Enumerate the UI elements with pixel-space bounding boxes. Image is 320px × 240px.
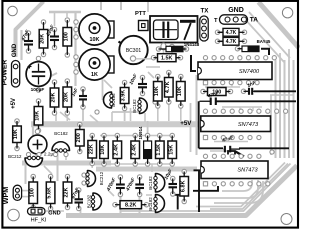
capacitor C11 470nF xyxy=(105,175,125,197)
trace right bus 5 xyxy=(293,60,295,158)
trace right bus 1 xyxy=(275,60,277,158)
trace vert x80 bottom xyxy=(80,209,82,214)
trace corner loop 3 xyxy=(214,181,263,203)
trace vert x112 mid xyxy=(111,112,113,122)
trace vert stub U2 b xyxy=(252,107,254,111)
svg-text:100: 100 xyxy=(63,32,69,41)
resistor R24 22K xyxy=(63,174,72,209)
mounting hole bottom-left xyxy=(8,209,20,221)
trace vert x36 up xyxy=(35,150,37,160)
connector WPM pill xyxy=(13,185,21,200)
trace vert x104 bottom2 xyxy=(103,164,105,168)
trace vert 470nF b xyxy=(139,194,141,215)
svg-text:BC182: BC182 xyxy=(54,131,68,136)
IC U2 top pads xyxy=(203,109,287,113)
trace vert under U1 a xyxy=(231,83,233,87)
svg-text:SN7400: SN7400 xyxy=(239,69,260,75)
resistor R26 8.2K xyxy=(113,201,149,209)
resistor R7 20K xyxy=(63,79,72,115)
resistor R19 1.5K xyxy=(156,133,165,166)
connector GND pill left xyxy=(12,61,20,88)
trace horiz y67 xyxy=(146,66,160,68)
wire 47nF-2 to right xyxy=(239,147,289,149)
trace vertical pot feed xyxy=(74,12,76,86)
svg-text:BC212: BC212 xyxy=(99,171,104,185)
svg-text:SN7473: SN7473 xyxy=(238,122,259,128)
resistor R22 100 xyxy=(29,174,38,209)
trace top-right inner 1 xyxy=(249,12,290,58)
wire 47nF-2 run xyxy=(199,147,223,149)
trace stub 22nF top xyxy=(54,12,56,26)
resistor R23 5.6K xyxy=(46,174,55,210)
trace top-left corner bend xyxy=(16,2,44,58)
capacitor C3 100uF electrolytic xyxy=(26,56,51,93)
trace right bus 3 xyxy=(284,60,286,158)
resistor R8 10K xyxy=(34,99,43,133)
trace vert x130 mid xyxy=(130,108,132,121)
trace right bus stub top a xyxy=(279,53,281,60)
resistor R25 6.8K xyxy=(180,169,189,203)
trace horiz below U2 xyxy=(214,141,248,143)
IC U2 bottom pads xyxy=(203,135,261,139)
wire diode BAY45 to bus xyxy=(261,49,269,55)
wire jog above SN7473-2 xyxy=(228,151,235,155)
svg-text:10K: 10K xyxy=(13,129,19,139)
trace top-right chamfer band xyxy=(259,2,300,48)
mounting hole bottom-right xyxy=(281,214,292,225)
svg-text:2.4K: 2.4K xyxy=(113,144,119,156)
transistor Q6 BC212 xyxy=(82,171,104,187)
resistor R16 10K xyxy=(100,133,109,166)
svg-text:200: 200 xyxy=(76,133,82,142)
capacitor C4 1nF xyxy=(70,86,87,109)
svg-text:4.7K: 4.7K xyxy=(226,30,237,36)
svg-text:6.8K: 6.8K xyxy=(180,180,186,192)
svg-text:22K: 22K xyxy=(64,187,70,197)
diode D3 1N914 xyxy=(144,133,152,166)
IC U1 pin1 square pad xyxy=(203,81,207,85)
trace vert r15 bottom xyxy=(180,106,182,121)
trace corner loop 1 xyxy=(222,180,252,191)
svg-text:BC182: BC182 xyxy=(132,99,137,113)
trace stub top edge b xyxy=(120,2,122,10)
capacitor C6 10nF xyxy=(128,72,147,95)
svg-text:GND: GND xyxy=(228,7,244,14)
trace vert r13 bottom xyxy=(157,106,159,121)
capacitor C13 10uF xyxy=(163,167,177,196)
resistor R6 20K xyxy=(50,80,59,115)
IC U3 SN7473 second xyxy=(201,161,268,179)
trace vert right-mid b xyxy=(190,103,192,152)
trace top-right inner 2 xyxy=(243,17,284,62)
trace horiz x150 y195 xyxy=(146,194,152,196)
svg-text:15K: 15K xyxy=(168,145,174,155)
trace mid horizontal bus xyxy=(31,121,199,127)
trace vert x67 y113 xyxy=(66,113,68,121)
connector T/TA pill xyxy=(220,15,248,24)
svg-text:20K: 20K xyxy=(63,92,69,102)
svg-text:1N4148: 1N4148 xyxy=(184,42,200,47)
capacitor C9 47nF xyxy=(221,135,240,152)
trace horiz under U1 xyxy=(205,86,240,88)
trace vert right bus 6 xyxy=(270,95,272,155)
resistor R11 22K xyxy=(88,133,97,165)
trace horiz below mid row xyxy=(92,163,172,165)
transistor Q2 BC212 xyxy=(25,152,43,166)
svg-text:4.7K: 4.7K xyxy=(165,81,171,93)
trimmer box K1 xyxy=(150,16,198,43)
capacitor C1 47nF xyxy=(20,28,33,53)
wire tee mid-bottom xyxy=(174,195,182,210)
svg-text:BAY45: BAY45 xyxy=(257,39,271,44)
connector TX pill xyxy=(200,16,208,41)
trace vert x57 y120 xyxy=(55,107,57,121)
svg-text:HF_KI: HF_KI xyxy=(31,218,47,224)
IC U2 pin1 square pad xyxy=(203,135,207,139)
trace stub top edge a xyxy=(100,2,102,10)
trace stub crystal pad down xyxy=(163,50,165,56)
IC U2 SN7473 xyxy=(201,116,271,132)
wire bottom of SN7473-2 xyxy=(193,186,218,191)
trace diag 100uF to pot xyxy=(35,73,57,84)
IC U3 bottom pads xyxy=(203,182,270,186)
potentiometer P2 1K 1K xyxy=(74,49,114,80)
trace bottom-right inner 1 xyxy=(120,164,291,212)
svg-text:1N914: 1N914 xyxy=(138,126,143,139)
svg-text:100µF: 100µF xyxy=(31,87,45,93)
svg-text:TA: TA xyxy=(250,17,258,24)
trace horiz above U3 xyxy=(210,150,235,152)
svg-text:100: 100 xyxy=(29,188,35,197)
svg-text:+5V: +5V xyxy=(180,120,192,127)
IC U1 bottom pads xyxy=(203,81,259,85)
wire 1nF to right bus xyxy=(254,90,296,92)
resistor R9 10K xyxy=(13,119,22,151)
resistor R14 4.7K xyxy=(165,70,174,104)
svg-text:20K: 20K xyxy=(51,92,57,102)
wire diagonal to pin xyxy=(236,152,245,157)
trace horiz hf_ki xyxy=(46,210,64,212)
diode D1 1N4148 xyxy=(156,46,188,51)
resistor R12 3.9K xyxy=(120,80,129,110)
wire net to SN7400 pin area xyxy=(191,55,196,71)
transistor Q3 BC182 xyxy=(52,142,70,157)
trace lower band b xyxy=(96,167,197,172)
svg-text:10K: 10K xyxy=(90,37,100,43)
svg-text:1.5K: 1.5K xyxy=(161,56,172,62)
transistor Q10 BC182 xyxy=(148,195,164,213)
trace diag mid a xyxy=(104,80,112,88)
resistor R2 100 xyxy=(63,18,72,57)
mounting hole top-left xyxy=(8,6,18,16)
trace vert bc301 right xyxy=(151,30,153,42)
svg-text:1.5K: 1.5K xyxy=(156,144,162,156)
svg-text:10K: 10K xyxy=(154,86,160,96)
trace diag mid c xyxy=(60,112,70,120)
trace right bus 2 xyxy=(279,60,281,158)
trace vert q5 bottom xyxy=(144,113,146,122)
svg-text:BC182: BC182 xyxy=(111,93,116,107)
resistor R10 200 xyxy=(76,122,85,153)
trace vert x172 bottom xyxy=(171,164,173,171)
trace stub 100 top xyxy=(66,12,68,17)
trace diag mid b xyxy=(148,72,154,78)
trace bus drop left xyxy=(32,124,34,137)
svg-text:GND: GND xyxy=(12,43,18,57)
trace bottom-right chamfer band xyxy=(66,166,297,216)
svg-text:5.6K: 5.6K xyxy=(47,187,53,199)
resistor R13 10K xyxy=(154,74,163,108)
wire 47nF to right edge xyxy=(217,100,297,102)
trace right bus 4 xyxy=(288,60,290,158)
trace bottom-right inner 2 xyxy=(196,163,285,207)
resistor R17 2.4K xyxy=(113,133,122,166)
svg-text:3.9K: 3.9K xyxy=(121,90,127,102)
trace vert x57 xyxy=(57,150,59,181)
capacitor C5 2.2uF electrolytic xyxy=(28,129,56,157)
svg-text:PTT: PTT xyxy=(135,11,146,17)
trace vert 3.9K bottom xyxy=(124,108,126,121)
trace diag bottom b xyxy=(108,190,114,196)
svg-text:BC182: BC182 xyxy=(148,176,153,190)
svg-text:BC301: BC301 xyxy=(126,48,142,54)
trace vert 1N914 top xyxy=(147,121,149,134)
svg-text:SN7473: SN7473 xyxy=(237,168,258,174)
trace vertical left of caps xyxy=(20,30,22,60)
trace horiz right edge mid xyxy=(270,94,294,96)
diode D2 BAY45 xyxy=(235,46,259,52)
transistor Q1 BC301 xyxy=(119,36,153,64)
transistor Q4 BC182 xyxy=(95,92,116,114)
wire tee right-bottom xyxy=(194,170,201,213)
trace vert right-mid a xyxy=(196,75,198,155)
trace vert x25 xyxy=(25,161,27,184)
resistor R4 4.7K xyxy=(215,28,246,36)
svg-text:20K: 20K xyxy=(40,34,46,44)
svg-text:2.4K: 2.4K xyxy=(131,144,137,156)
trace wpm dash a xyxy=(22,190,29,192)
trace vert stub U2 a xyxy=(239,107,241,111)
svg-text:4.7K: 4.7K xyxy=(226,39,237,45)
trace vert x83 mid xyxy=(82,108,84,121)
trace vert x152 bottom xyxy=(151,164,153,172)
trace vert x92 bottom2 xyxy=(91,164,93,168)
IC U3 pin1 square pad xyxy=(203,182,207,186)
svg-text:1K: 1K xyxy=(91,72,98,78)
svg-text:22K: 22K xyxy=(88,144,94,154)
connector HF_KI pill xyxy=(28,208,46,215)
trace diag mid d xyxy=(90,115,98,122)
resistor R18 2.4K xyxy=(131,133,140,166)
trace bottom-right inner 3 xyxy=(210,164,288,210)
svg-text:BC212: BC212 xyxy=(8,154,22,159)
svg-text:8.2K: 8.2K xyxy=(125,203,136,209)
resistor R21 100 xyxy=(201,88,233,96)
trace vert x168 mid xyxy=(168,102,170,121)
trace horiz above mid row xyxy=(100,135,172,137)
trace horiz right of 8.2K xyxy=(147,204,153,206)
trace right bus stub top b xyxy=(288,49,290,60)
transistor Q7 BC182 xyxy=(86,193,101,210)
transistor Q5 BC182 xyxy=(132,98,157,114)
trace wpm dash b xyxy=(22,196,29,198)
trace vert pot1K bottom xyxy=(102,74,104,100)
trace corner loop 2 xyxy=(200,180,258,198)
trace stub top edge c xyxy=(147,2,149,12)
svg-text:TX: TX xyxy=(201,8,210,15)
resistor R1 20K xyxy=(39,20,48,57)
trace vert 470nF a xyxy=(120,194,122,215)
trace diag bottom a xyxy=(44,166,52,174)
pad PTT square xyxy=(139,21,149,31)
resistor R15 10K xyxy=(177,74,186,108)
svg-text:+5V: +5V xyxy=(11,98,17,109)
trace horiz above U2 xyxy=(222,106,262,108)
svg-text:GND: GND xyxy=(48,211,60,217)
capacitor C2 22nF xyxy=(45,23,59,49)
svg-text:10K: 10K xyxy=(100,145,106,155)
svg-text:BC182: BC182 xyxy=(86,194,91,208)
trace vert x66 bottom xyxy=(65,150,67,160)
transistor Q9 BC182 xyxy=(148,174,165,193)
trace horiz q4 q5 xyxy=(112,111,138,113)
trace stub crystal pad down b xyxy=(171,49,173,56)
trace lower band a xyxy=(22,161,111,166)
resistor R20 15K xyxy=(168,133,177,166)
IC U1 top pads xyxy=(203,56,276,60)
mounting hole top-right xyxy=(282,8,292,18)
capacitor C7 1nF xyxy=(241,80,257,95)
svg-text:10K: 10K xyxy=(177,86,183,96)
resistor R3 1.5K xyxy=(151,54,182,62)
capacitor C8 47nF xyxy=(200,90,221,105)
resistor R5 4.7K xyxy=(215,37,246,45)
capacitor C12 470nF xyxy=(125,175,144,197)
svg-text:10K: 10K xyxy=(35,111,41,121)
IC U1 SN7400 xyxy=(198,62,272,80)
pad below trimmer box xyxy=(161,43,174,50)
trace top horizontal bus xyxy=(49,11,81,14)
svg-text:T: T xyxy=(214,18,218,24)
potentiometer P1 10K 10K xyxy=(74,14,114,45)
wire vertical left of SN7473 xyxy=(198,101,200,148)
IC U3 top pads xyxy=(203,150,274,159)
capacitor C10 47nF xyxy=(70,186,83,210)
